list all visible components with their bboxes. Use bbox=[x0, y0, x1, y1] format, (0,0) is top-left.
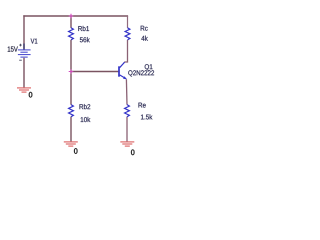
junction node top bbox=[69, 14, 74, 19]
transistor Q1 base bar bbox=[118, 66, 120, 76]
label 56k bbox=[80, 37, 90, 42]
battery V1 plates bbox=[18, 50, 31, 57]
resistor Rb1 bbox=[69, 28, 74, 40]
resistor Rc bbox=[125, 28, 130, 40]
resistor Rb2 bbox=[69, 105, 74, 117]
label 0 ground1 bbox=[29, 92, 32, 98]
wire left rail upper bbox=[23, 15, 25, 49]
ground 0 under battery bbox=[17, 88, 31, 92]
transistor Q1 emitter arrowhead bbox=[123, 76, 127, 79]
label 10k bbox=[81, 117, 91, 122]
battery minus sign bbox=[19, 59, 22, 61]
wire right rail upper bbox=[127, 16, 129, 28]
battery plus sign bbox=[19, 44, 22, 47]
battery V1 top lead dark bbox=[23, 44, 25, 50]
label Rb1 bbox=[78, 26, 89, 31]
wire left rail lower bbox=[23, 58, 25, 88]
label Q1 bbox=[145, 64, 153, 70]
label Rb2 bbox=[80, 104, 91, 109]
wire middle rail upper bbox=[70, 16, 72, 28]
label 1.5k bbox=[141, 114, 152, 119]
label V1 bbox=[31, 39, 38, 44]
label 0 ground3 bbox=[131, 150, 134, 156]
wire emitter bbox=[125, 79, 128, 105]
label Rc bbox=[141, 26, 148, 31]
wire top rail bbox=[23, 15, 128, 17]
label Re bbox=[139, 103, 146, 108]
transistor Q1 collector stroke bbox=[120, 62, 125, 68]
resistor Re bbox=[125, 105, 130, 117]
label 0 ground2 bbox=[74, 148, 77, 154]
wire middle rail lower bbox=[70, 117, 72, 142]
wire right rail lower bbox=[126, 117, 128, 142]
label Q2N2222 bbox=[128, 70, 154, 76]
label 4k bbox=[141, 36, 148, 41]
wire base bbox=[71, 71, 118, 73]
label 15V bbox=[8, 47, 18, 52]
wire collector jog bbox=[124, 40, 127, 62]
ground 0 under Rb2 bbox=[64, 142, 78, 146]
junction node base bbox=[69, 69, 74, 74]
ground 0 under Re bbox=[120, 142, 134, 146]
wire middle rail mid bbox=[70, 40, 72, 105]
transistor Q1 emitter stroke bbox=[120, 75, 127, 79]
